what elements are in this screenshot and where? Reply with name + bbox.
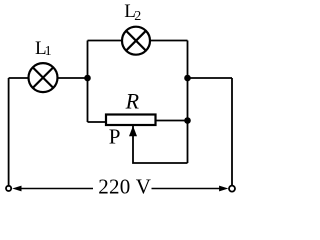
- wire: top branch horizontal into lamp L2: [88, 40, 123, 42]
- node A junction dot: [84, 75, 91, 82]
- svg-text:1: 1: [45, 44, 52, 59]
- wire: lamp L1 to node A: [57, 77, 88, 79]
- dimension arrow right (220 V): [152, 186, 229, 192]
- wire: node B horizontal to right vertical: [188, 77, 233, 79]
- wire: resistor right lead to junction: [157, 120, 188, 122]
- resistor R (rheostat body): [106, 115, 156, 126]
- dimension arrow left (220 V): [12, 186, 93, 192]
- junction dot node B (to right supply wire): [184, 75, 191, 82]
- wire: left branch vertical (node A up to top branch, down to resistor row): [87, 41, 89, 123]
- wire: left vertical from lamp L1 row down to left terminal: [8, 78, 10, 185]
- wire: resistor left lead and corner up: [88, 121, 106, 123]
- left supply terminal: [6, 186, 11, 191]
- right supply terminal: [229, 186, 235, 192]
- lamp L1: [29, 63, 58, 92]
- svg-text:220 V: 220 V: [98, 175, 151, 199]
- wire: lamp L2 right to mid vertical: [150, 40, 188, 42]
- svg-text:2: 2: [134, 9, 141, 24]
- wiper arrow P into resistor: [129, 126, 137, 136]
- junction dot node C (resistor right / wiper loop): [184, 117, 191, 124]
- wire: right vertical down to right terminal: [231, 78, 233, 185]
- svg-text:R: R: [125, 89, 140, 114]
- svg-text:P: P: [109, 125, 121, 149]
- wire: wiper lead down and loop to node C: [133, 135, 188, 163]
- lamp L2: [122, 27, 150, 55]
- wire: left horizontal into lamp L1: [9, 77, 29, 79]
- wire: mid vertical x=187.5 from top branch down to rheostat loop bottom: [187, 41, 189, 164]
